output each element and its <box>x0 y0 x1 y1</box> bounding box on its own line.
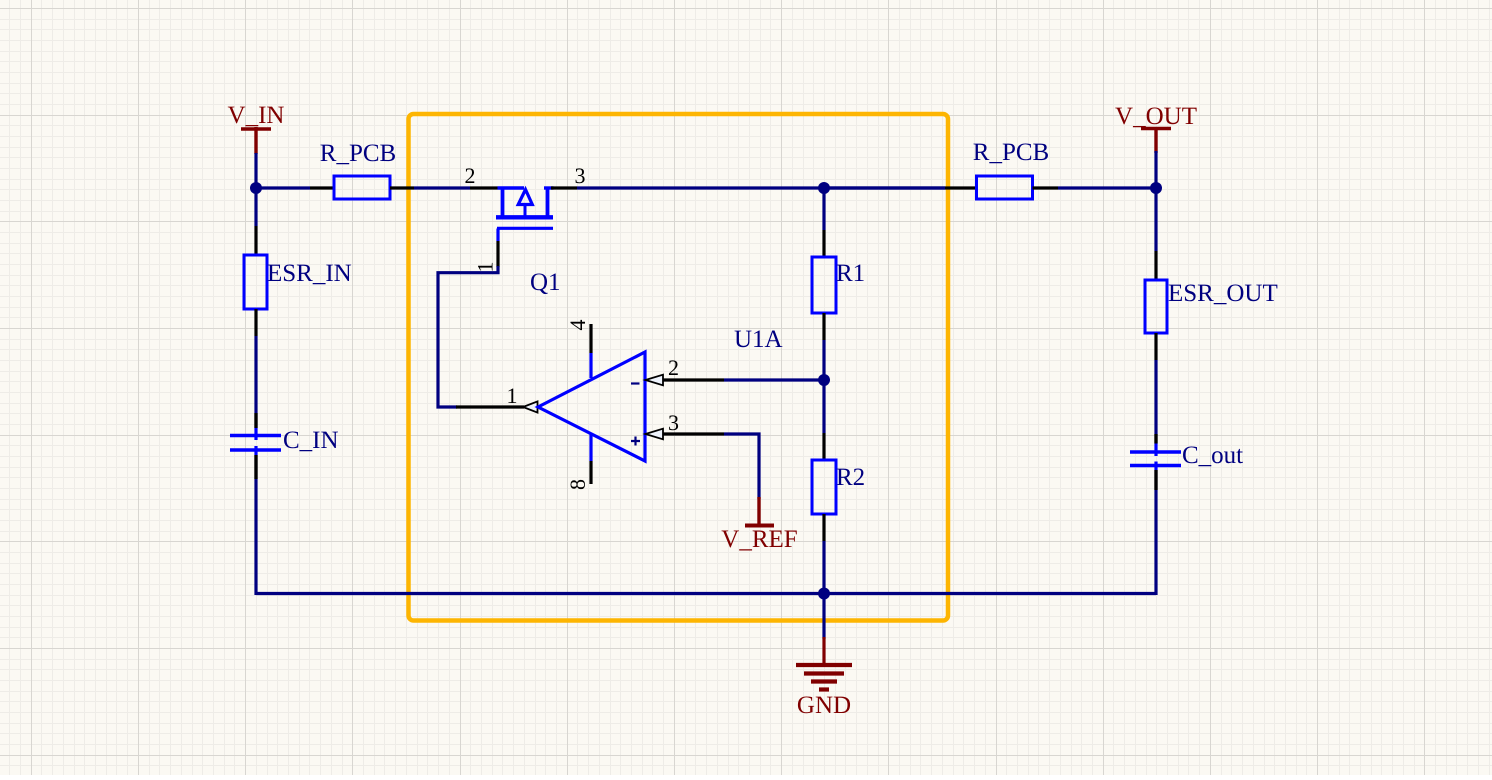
svg-text:3: 3 <box>668 410 679 435</box>
svg-text:V_REF: V_REF <box>721 526 797 553</box>
resistor R_PCB (left) pin 1 <box>310 186 334 189</box>
node divider junction <box>818 374 830 386</box>
resistor R2 <box>812 460 865 514</box>
resistor R_PCB (left) pin 2 <box>390 186 414 189</box>
resistor R_PCB (right) <box>973 139 1049 199</box>
svg-text:C_IN: C_IN <box>283 427 339 454</box>
wire C_out to bottom rail <box>1154 490 1157 595</box>
node R1 top junction <box>818 182 830 194</box>
wire Q1 pin3 to output node <box>577 186 945 189</box>
wire node to R_PCB left <box>256 186 310 189</box>
op-amp U1A pin 4 <box>565 320 591 379</box>
svg-text:R1: R1 <box>836 260 865 287</box>
wire pin2 to divider node <box>724 378 824 381</box>
wire R2 to ground rail <box>822 541 825 594</box>
node V_IN junction <box>250 182 262 194</box>
resistor R1 pin 2 <box>822 313 825 340</box>
wire V_IN to node <box>254 153 257 188</box>
resistor ESR_OUT pin 2 <box>1154 333 1157 360</box>
transistor Q1 (P-MOSFET) <box>496 187 561 297</box>
svg-text:R_PCB: R_PCB <box>973 139 1049 166</box>
resistor ESR_OUT pin 1 <box>1154 251 1157 280</box>
wire gate net <box>438 266 498 407</box>
svg-text:Q1: Q1 <box>530 269 561 296</box>
svg-text:8: 8 <box>565 479 590 490</box>
resistor R2 pin 1 <box>822 433 825 460</box>
capacitor C_IN pin 2 <box>254 455 257 479</box>
resistor ESR_IN <box>244 255 352 309</box>
svg-text:V_OUT: V_OUT <box>1115 103 1197 130</box>
power port V_REF <box>721 497 797 553</box>
resistor R_PCB (right) pin 2 <box>1033 186 1059 189</box>
transistor Q1 pin 2 <box>470 186 498 189</box>
op-amp U1A pin 2 <box>646 355 725 385</box>
wire V_OUT to node <box>1154 151 1157 188</box>
svg-text:R_PCB: R_PCB <box>320 140 396 167</box>
capacitor C_out pin 1 <box>1154 434 1157 444</box>
capacitor C_out <box>1130 442 1243 470</box>
resistor R_PCB (right) pin 1 <box>945 186 977 189</box>
wire R_PCB to Q1 pin2 <box>414 186 470 189</box>
svg-text:2: 2 <box>668 355 679 380</box>
wire node down to ESR_IN <box>254 188 257 226</box>
svg-text:2: 2 <box>464 163 475 188</box>
wire C_IN to bottom rail <box>254 479 257 595</box>
svg-text:1: 1 <box>506 383 517 408</box>
pin arrow output 1 <box>523 401 538 412</box>
node ground junction <box>818 588 830 600</box>
op-amp U1A pin 3 <box>646 410 725 439</box>
svg-text:1: 1 <box>473 262 498 273</box>
svg-text:ESR_IN: ESR_IN <box>267 260 352 287</box>
transistor Q1 gate pin 1 <box>496 241 499 267</box>
svg-text:R2: R2 <box>836 464 865 491</box>
op-amp U1A pin 1 <box>456 405 524 408</box>
resistor R_PCB (left) <box>320 140 396 199</box>
wire ESR_IN to C_IN <box>254 336 257 413</box>
wire R1 to divider node <box>822 340 825 433</box>
wire to V_OUT node <box>1058 186 1156 189</box>
wire pin3 to V_REF <box>724 434 759 499</box>
power port V_OUT <box>1115 103 1197 153</box>
resistor ESR_IN pin 2 <box>254 309 257 336</box>
op-amp U1A <box>538 326 783 461</box>
resistor R1 pin 1 <box>822 230 825 257</box>
capacitor C_out pin 2 <box>1154 470 1157 490</box>
yellow highlight box (LDO internals) <box>409 114 949 621</box>
wire node down to ESR_OUT <box>1154 188 1157 251</box>
ground GND <box>796 637 852 719</box>
wire output node down to R1 <box>822 188 825 230</box>
capacitor C_IN pin 1 <box>254 413 257 428</box>
svg-text:ESR_OUT: ESR_OUT <box>1168 280 1278 307</box>
svg-text:U1A: U1A <box>734 326 783 353</box>
svg-text:C_out: C_out <box>1182 442 1243 469</box>
svg-text:V_IN: V_IN <box>228 102 285 129</box>
wire bottom rail <box>256 592 1156 595</box>
transistor Q1 pin 3 <box>551 186 577 189</box>
svg-text:3: 3 <box>574 163 585 188</box>
op-amp U1A pin 8 <box>565 433 591 490</box>
svg-text:4: 4 <box>565 320 590 331</box>
wire ground rail down <box>822 594 825 640</box>
resistor ESR_IN pin 1 <box>254 226 257 255</box>
resistor R2 pin 2 <box>822 514 825 541</box>
node V_OUT junction <box>1150 182 1162 194</box>
resistor ESR_OUT <box>1145 280 1278 333</box>
capacitor C_IN <box>230 427 339 455</box>
resistor R1 <box>812 257 865 313</box>
svg-text:GND: GND <box>797 692 851 719</box>
wire node to right R_PCB <box>824 186 945 189</box>
power port V_IN <box>228 102 285 154</box>
wire ESR_OUT to C_out <box>1154 360 1157 434</box>
